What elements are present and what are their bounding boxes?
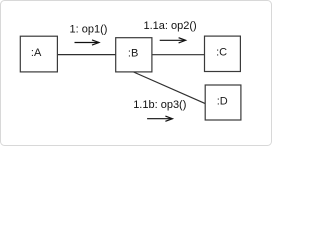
object A: [20, 36, 57, 72]
svg-text::D: :D: [217, 96, 228, 108]
wire B-C: [152, 54, 205, 56]
wire B-D: [134, 72, 206, 104]
svg-text:1: op1(): 1: op1(): [70, 24, 108, 36]
svg-text:1.1a: op2(): 1.1a: op2(): [144, 20, 197, 32]
object D: [205, 85, 241, 120]
message 1.1a arrow: [160, 38, 186, 43]
wire A-B: [57, 54, 115, 56]
background frame: [1, 1, 272, 146]
message 1 arrow: [75, 40, 100, 45]
object C: [205, 36, 241, 71]
object B: [116, 38, 152, 72]
message 1.1b arrow: [147, 116, 172, 121]
svg-text::A: :A: [31, 47, 42, 59]
svg-text::C: :C: [216, 46, 227, 58]
svg-text::B: :B: [128, 48, 138, 60]
svg-text:1.1b: op3(): 1.1b: op3(): [133, 99, 186, 111]
